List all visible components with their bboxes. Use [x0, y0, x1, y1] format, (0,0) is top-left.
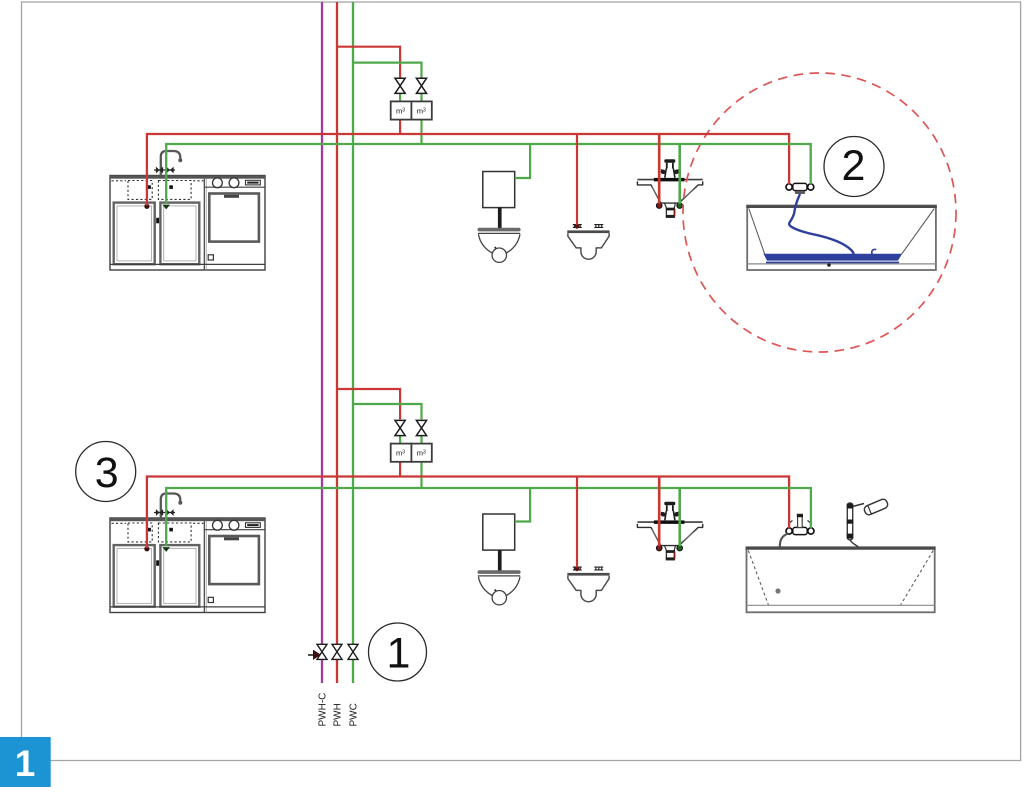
svg-text:2: 2 [842, 142, 866, 190]
svg-text:3: 3 [95, 449, 119, 497]
svg-text:PWC: PWC [349, 703, 360, 726]
svg-text:PWH: PWH [333, 703, 344, 726]
svg-text:1: 1 [387, 630, 411, 678]
svg-text:1: 1 [15, 743, 36, 784]
svg-text:PWH-C: PWH-C [318, 693, 329, 727]
